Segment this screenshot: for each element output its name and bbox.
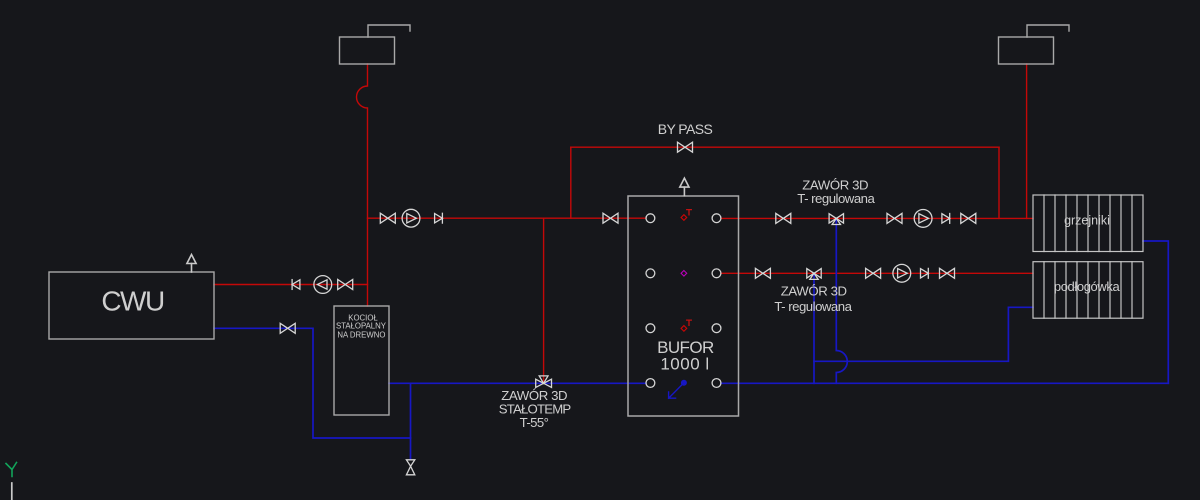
valve radiators 2: [887, 213, 902, 223]
port bottom-left: [646, 379, 655, 388]
port mid-left: [646, 269, 655, 278]
svg-text:T-55°: T-55°: [520, 415, 549, 430]
wire: right expansion vessel riser: [1026, 64, 1028, 218]
valve radiators 1: [776, 213, 791, 223]
pump radiators: [914, 210, 932, 228]
wire: main supply boiler to buffer: [368, 217, 646, 219]
wire: floor mixer drop: [813, 273, 815, 383]
expansion vessel right: [999, 25, 1070, 64]
radiator podlogowka: [1033, 262, 1143, 319]
valve floor 3: [940, 268, 955, 278]
svg-text:podłogówka: podłogówka: [1054, 279, 1121, 294]
port mid-right: [712, 269, 721, 278]
air vent on CWU: [187, 255, 196, 273]
port low-left: [646, 324, 655, 333]
valve floor 2: [866, 268, 881, 278]
check valve floor: [921, 268, 929, 278]
svg-text:1000 l: 1000 l: [660, 354, 709, 373]
buffer tank: [628, 196, 739, 416]
buffer sensor mid (magenta): [681, 270, 687, 276]
drain valve hourglass: [406, 460, 414, 475]
radiator grzejniki: [1033, 195, 1143, 252]
buffer sensor T1: [681, 210, 691, 221]
port top-right: [712, 214, 721, 223]
label zawor 3D floor: [774, 284, 852, 315]
CWU tank: [49, 272, 214, 339]
3-way mixing valve radiators: [829, 214, 843, 225]
wire: bypass riser left: [570, 147, 572, 218]
pump CWU (flow left): [314, 276, 332, 294]
wire: CWU cold return: [214, 328, 411, 438]
port low-right: [712, 324, 721, 333]
valve CWU supply: [338, 280, 353, 290]
thermostatic 3-way valve T-55: [536, 376, 552, 388]
wire: radiators return riser: [1143, 241, 1168, 383]
svg-text:BY PASS: BY PASS: [658, 121, 713, 137]
boiler box: [334, 306, 389, 415]
wire: boiler riser with loop: [357, 64, 368, 306]
buffer label: [657, 338, 714, 373]
port top-left: [646, 214, 655, 223]
label zawor 3D radiators: [797, 178, 875, 207]
svg-text:T- regulowana: T- regulowana: [774, 299, 852, 314]
valve boiler supply: [380, 213, 395, 223]
buffer drain arrow (blue): [669, 381, 687, 399]
UCS Y axis label: [6, 463, 17, 477]
valve before buffer: [603, 213, 618, 223]
svg-text:CWU: CWU: [101, 285, 164, 316]
3-way mixing valve floor: [807, 269, 821, 280]
wire: bypass drop right: [998, 147, 1000, 218]
svg-text:ZAWÓR 3D: ZAWÓR 3D: [781, 284, 847, 299]
port bottom-right: [712, 379, 721, 388]
UCS axis line: [11, 483, 13, 500]
buffer ports: [646, 214, 721, 388]
wire: floor heating supply: [721, 272, 1033, 274]
wire: radiators supply: [721, 217, 1033, 219]
buffer sensor T2: [681, 320, 691, 331]
wire: CWU hot supply horizontal: [214, 284, 368, 286]
check valve radiators: [942, 214, 950, 224]
valve radiators 3: [961, 213, 976, 223]
svg-text:NA DREWNO: NA DREWNO: [337, 330, 385, 339]
wire: floor heating return: [814, 307, 1033, 361]
air vent on buffer: [680, 178, 689, 196]
wire: drain branch: [410, 383, 412, 459]
bypass valve: [678, 142, 693, 152]
svg-text:STAŁOPALNY: STAŁOPALNY: [336, 322, 387, 331]
boiler label: [336, 314, 387, 340]
wire: radiator mixer drop with jump: [836, 218, 847, 383]
expansion vessel left: [340, 25, 411, 64]
valve CWU cold: [280, 323, 295, 333]
wire: branch to thermostatic valve: [543, 218, 545, 383]
valve floor 1: [755, 268, 770, 278]
svg-text:grzejniki: grzejniki: [1064, 213, 1110, 227]
check valve CWU (flow left): [292, 280, 300, 290]
wire: boiler return to buffer: [389, 382, 646, 384]
check valve boiler circuit: [435, 213, 443, 223]
wire: main return buffer to risers: [721, 382, 1168, 384]
pump boiler circuit: [402, 209, 420, 227]
pump floor: [893, 264, 911, 282]
label zawor stalotemp: [499, 388, 572, 430]
wire: bypass horizontal: [571, 146, 999, 148]
svg-text:T- regulowana: T- regulowana: [797, 191, 875, 206]
